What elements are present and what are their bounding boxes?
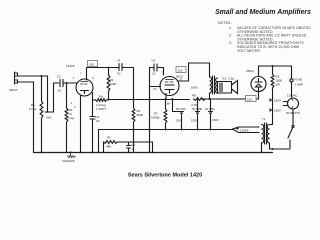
svg-text:VOL.: VOL. <box>46 116 53 120</box>
B- rail <box>99 130 233 153</box>
boxed voltage V1 plate <box>88 61 98 67</box>
svg-text:12AV6: 12AV6 <box>240 129 249 133</box>
top right line <box>259 65 292 67</box>
chassis ground symbol <box>67 152 76 158</box>
voltage test arrow 150V <box>269 98 273 102</box>
wire pot top drop <box>41 76 43 101</box>
capacitor C2 <box>90 100 95 152</box>
tube V1 12AV6 <box>76 79 93 96</box>
capacitor C3 <box>127 142 131 152</box>
boxed voltage V2 <box>176 67 186 73</box>
feedback loop R5 C3 <box>104 141 153 152</box>
svg-text:R8: R8 <box>192 94 196 98</box>
svg-text:.02: .02 <box>96 119 100 123</box>
wire V2 plate to OT <box>178 63 210 81</box>
svg-text:3.: 3. <box>229 41 232 45</box>
wire V1 plate up <box>86 68 88 81</box>
switch SW1 <box>288 125 294 148</box>
svg-text:100: 100 <box>89 62 94 66</box>
heater bus 12AV6 <box>233 127 260 133</box>
tube V3 35W4 rectifier <box>251 77 266 92</box>
svg-text:C4: C4 <box>117 59 121 63</box>
wire V1 cathode to bus <box>80 96 82 153</box>
svg-text:T1: T1 <box>262 117 266 121</box>
svg-text:.1: .1 <box>131 147 134 151</box>
svg-text:1W: 1W <box>276 83 281 87</box>
svg-text:2.: 2. <box>229 34 232 38</box>
svg-text:60 WATTS: 60 WATTS <box>286 111 300 115</box>
wiper arm of R1 <box>45 76 47 112</box>
wire V1 pin to R4 <box>92 93 94 100</box>
wire C6 to V2 pin7 <box>163 68 165 76</box>
svg-text:48K: 48K <box>106 145 111 149</box>
wire T1 left bottom to bus <box>261 143 263 152</box>
node R7 <box>165 98 167 100</box>
svg-text:C6: C6 <box>152 59 156 63</box>
svg-text:50 C8B: 50 C8B <box>192 107 202 111</box>
node grid R2 <box>66 82 68 84</box>
boxed voltage B+ <box>246 96 257 102</box>
svg-text:560K: 560K <box>137 113 144 117</box>
svg-text:NOTES:: NOTES: <box>218 21 232 25</box>
svg-text:150V: 150V <box>191 119 198 123</box>
svg-text:FUSE: FUSE <box>295 78 303 82</box>
ground bus B- chassis <box>34 152 273 154</box>
resistor R7 <box>165 99 167 109</box>
svg-text:1meg: 1meg <box>29 107 37 111</box>
svg-text:150V: 150V <box>212 118 219 122</box>
wire jack tip to grid corner <box>24 75 48 77</box>
wire wiper to C1 <box>48 83 59 112</box>
resistor R3 100K <box>108 68 110 76</box>
svg-text:1 WATT: 1 WATT <box>96 107 107 111</box>
svg-text:V.C. 3.2Ω: V.C. 3.2Ω <box>222 77 235 81</box>
node B+ to B- drop <box>149 99 151 101</box>
svg-text:1800: 1800 <box>191 86 198 90</box>
B+ line <box>109 99 190 102</box>
AC plug P1 <box>283 98 298 109</box>
capacitor C8A <box>180 112 184 130</box>
svg-text:R4: R4 <box>99 95 103 99</box>
svg-text:.02: .02 <box>57 89 61 93</box>
speaker SP1 <box>218 81 238 94</box>
wire V3 top <box>258 66 260 77</box>
svg-text:VOLT METER.: VOLT METER. <box>237 49 261 53</box>
resistor R9 <box>272 66 274 74</box>
svg-text:117VAC: 117VAC <box>287 94 297 98</box>
wire OT bottom to B+ <box>209 93 211 99</box>
svg-text:130V: 130V <box>274 109 281 113</box>
capacitor C6 <box>150 64 164 71</box>
svg-text:Sears Silvertone Model 1420: Sears Silvertone Model 1420 <box>128 173 202 179</box>
svg-text:2.5: 2.5 <box>153 87 157 91</box>
wire C1 to V1 grid <box>63 82 77 84</box>
svg-text:35W4: 35W4 <box>246 69 254 73</box>
svg-text:INPUT: INPUT <box>9 88 18 92</box>
svg-text:1 AMP: 1 AMP <box>295 83 304 87</box>
svg-text:.02: .02 <box>152 72 156 76</box>
node pot top <box>41 75 43 77</box>
resistor R6 <box>132 108 135 122</box>
wire C4 out drop <box>133 68 135 109</box>
svg-text:50 C8A: 50 C8A <box>176 107 186 111</box>
svg-text:50C5: 50C5 <box>176 75 183 79</box>
svg-text:120: 120 <box>178 68 183 72</box>
capacitor C4 <box>119 64 122 71</box>
wire plug to switch <box>292 109 294 125</box>
node R3 top <box>108 67 110 69</box>
heater return wire <box>270 144 291 150</box>
svg-text:25V: 25V <box>176 119 181 123</box>
wire grid segment V2 <box>149 68 151 153</box>
voltage test arrow 130V <box>269 108 273 112</box>
wire jack sleeve to ground <box>24 82 34 152</box>
svg-text:100K: 100K <box>110 82 117 86</box>
potentiometer R1 VOL <box>40 101 43 118</box>
resistor R2 10meg <box>66 83 68 108</box>
resistor R4 2.2meg <box>93 99 96 101</box>
svg-text:.02: .02 <box>117 72 121 76</box>
svg-text:1.: 1. <box>229 26 232 30</box>
electrolytic feed staple <box>172 98 174 100</box>
fuse F1 <box>290 66 293 97</box>
svg-text:R5: R5 <box>107 136 111 140</box>
output transformer T2 <box>210 76 218 94</box>
wire V3 cathode to B+ <box>258 91 260 99</box>
wire T1 right top to R9 line <box>270 122 273 125</box>
capacitor C8B <box>196 98 200 129</box>
svg-text:B+: B+ <box>167 102 171 106</box>
wire pot bottom to bus <box>41 118 43 152</box>
svg-text:1800Ω: 1800Ω <box>151 116 160 120</box>
svg-text:C1: C1 <box>57 75 61 79</box>
svg-text:meg: meg <box>69 116 75 120</box>
plate line top <box>87 67 117 69</box>
wire V2 cathode <box>165 94 167 100</box>
svg-text:20 C8C: 20 C8C <box>205 107 215 111</box>
svg-text:150V: 150V <box>274 99 281 103</box>
svg-text:Small and Medium Amplifiers: Small and Medium Amplifiers <box>215 9 311 16</box>
resistor R8 4.7K <box>194 98 206 101</box>
capacitor C8C <box>209 99 213 129</box>
tube V2 50C5 <box>160 77 179 96</box>
heater transformer T1 <box>262 123 270 144</box>
svg-text:CHASSIS: CHASSIS <box>62 159 75 163</box>
capacitor C1 <box>60 80 63 87</box>
svg-text:12AV6: 12AV6 <box>66 64 75 68</box>
input jack J1 <box>15 72 24 84</box>
svg-text:150: 150 <box>247 97 252 101</box>
